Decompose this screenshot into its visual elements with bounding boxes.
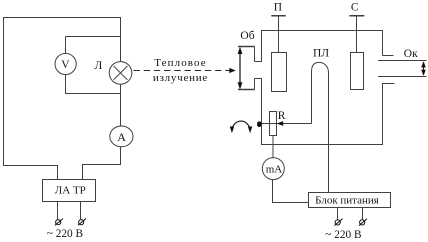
milliammeter mA: [262, 158, 284, 180]
electrode P terminal bar: [271, 15, 286, 17]
rotation arc arrow: [232, 121, 250, 130]
electrode C terminal bar: [349, 15, 364, 17]
wire: outer loop top edge: [3, 17, 121, 19]
entrance slit upper lip: [255, 47, 263, 62]
svg-text:Л: Л: [94, 60, 102, 72]
Ob dimension arrow: [239, 49, 241, 88]
svg-text:Об: Об: [240, 30, 254, 42]
svg-text:П: П: [274, 2, 282, 14]
rheostat bottom wire to mA: [272, 136, 274, 158]
furnace box left wall lower: [261, 79, 263, 146]
svg-text:~ 220 В: ~ 220 В: [47, 228, 83, 240]
svg-text:излучение: излучение: [153, 72, 208, 84]
electrode P body: [272, 53, 287, 92]
svg-text:Ок: Ок: [404, 48, 418, 60]
furnace box right wall upper: [382, 31, 384, 56]
wire: voltmeter branch top horizontal: [66, 36, 121, 38]
autotransformer LATR box: [43, 180, 96, 202]
svg-text:R: R: [278, 110, 286, 122]
lamp L1 cross: [114, 66, 128, 80]
mains terminal symbol (PSU left): [334, 219, 342, 226]
electrode C body: [351, 53, 364, 90]
wire: drop to LATR right input: [82, 165, 84, 181]
mains terminal symbol (LATR right): [78, 219, 86, 226]
radiation dashed arrow: [134, 70, 230, 72]
wire: lamp to ammeter: [120, 84, 122, 126]
voltmeter V: [55, 53, 76, 74]
svg-text:А: А: [117, 130, 126, 144]
exit window upper lip: [383, 55, 394, 57]
electrode C stem: [356, 16, 358, 52]
exit tube top line: [378, 60, 427, 62]
exit tube bottom line: [378, 76, 427, 78]
wire: outer loop bottom-left horizontal: [3, 165, 58, 167]
furnace box top edge: [261, 30, 383, 32]
rheostat R body: [270, 112, 277, 136]
svg-text:ЛА ТР: ЛА ТР: [55, 184, 86, 196]
wire: LATR right mains lead: [80, 202, 82, 220]
svg-text:ПЛ: ПЛ: [313, 48, 329, 60]
ammeter A: [110, 126, 133, 147]
power supply box: [309, 193, 391, 208]
mains terminal symbol (PSU right): [359, 219, 367, 226]
mains terminal symbol (LATR left): [55, 219, 63, 226]
electrode P stem: [278, 16, 280, 52]
exit window lower lip: [383, 83, 395, 85]
svg-text:С: С: [351, 1, 359, 13]
wire: outer loop left side: [3, 17, 5, 166]
svg-text:Тепловое: Тепловое: [154, 57, 207, 69]
photodetector PL dome: [312, 62, 329, 192]
wire: LATR left mains lead: [57, 202, 59, 220]
wire: ammeter to LATR horizontal: [82, 164, 121, 166]
svg-text:mA: mA: [266, 163, 283, 175]
Ok dimension arrow: [423, 63, 425, 75]
radiation arrowhead: [229, 68, 236, 73]
svg-text:Блок питания: Блок питания: [315, 194, 379, 206]
furnace box bottom edge: [261, 144, 383, 146]
entrance slit lower lip: [255, 79, 263, 90]
wire: mA down: [272, 180, 274, 203]
rheostat knob dot: [257, 121, 262, 127]
wire: voltmeter bottom lead: [65, 75, 67, 94]
svg-text:V: V: [61, 59, 70, 71]
wire: voltmeter branch bottom horizontal: [66, 93, 121, 95]
wire: mA to power supply: [273, 202, 309, 204]
rheostat wiper arrowhead: [277, 121, 284, 126]
wire: power supply right mains lead: [362, 208, 364, 220]
furnace box left wall upper: [261, 31, 263, 62]
wire: power supply left mains lead: [337, 208, 339, 220]
wire: ammeter down: [120, 147, 122, 165]
wire: voltmeter top lead: [65, 37, 67, 54]
lamp L1 circle: [109, 62, 132, 85]
rheostat axis / wiper wire: [260, 123, 312, 125]
svg-text:~ 220 В: ~ 220 В: [325, 229, 361, 241]
wire: lamp feed from top edge: [120, 18, 122, 62]
furnace box right wall lower: [382, 83, 384, 145]
wire: drop to LATR left input: [57, 165, 59, 180]
